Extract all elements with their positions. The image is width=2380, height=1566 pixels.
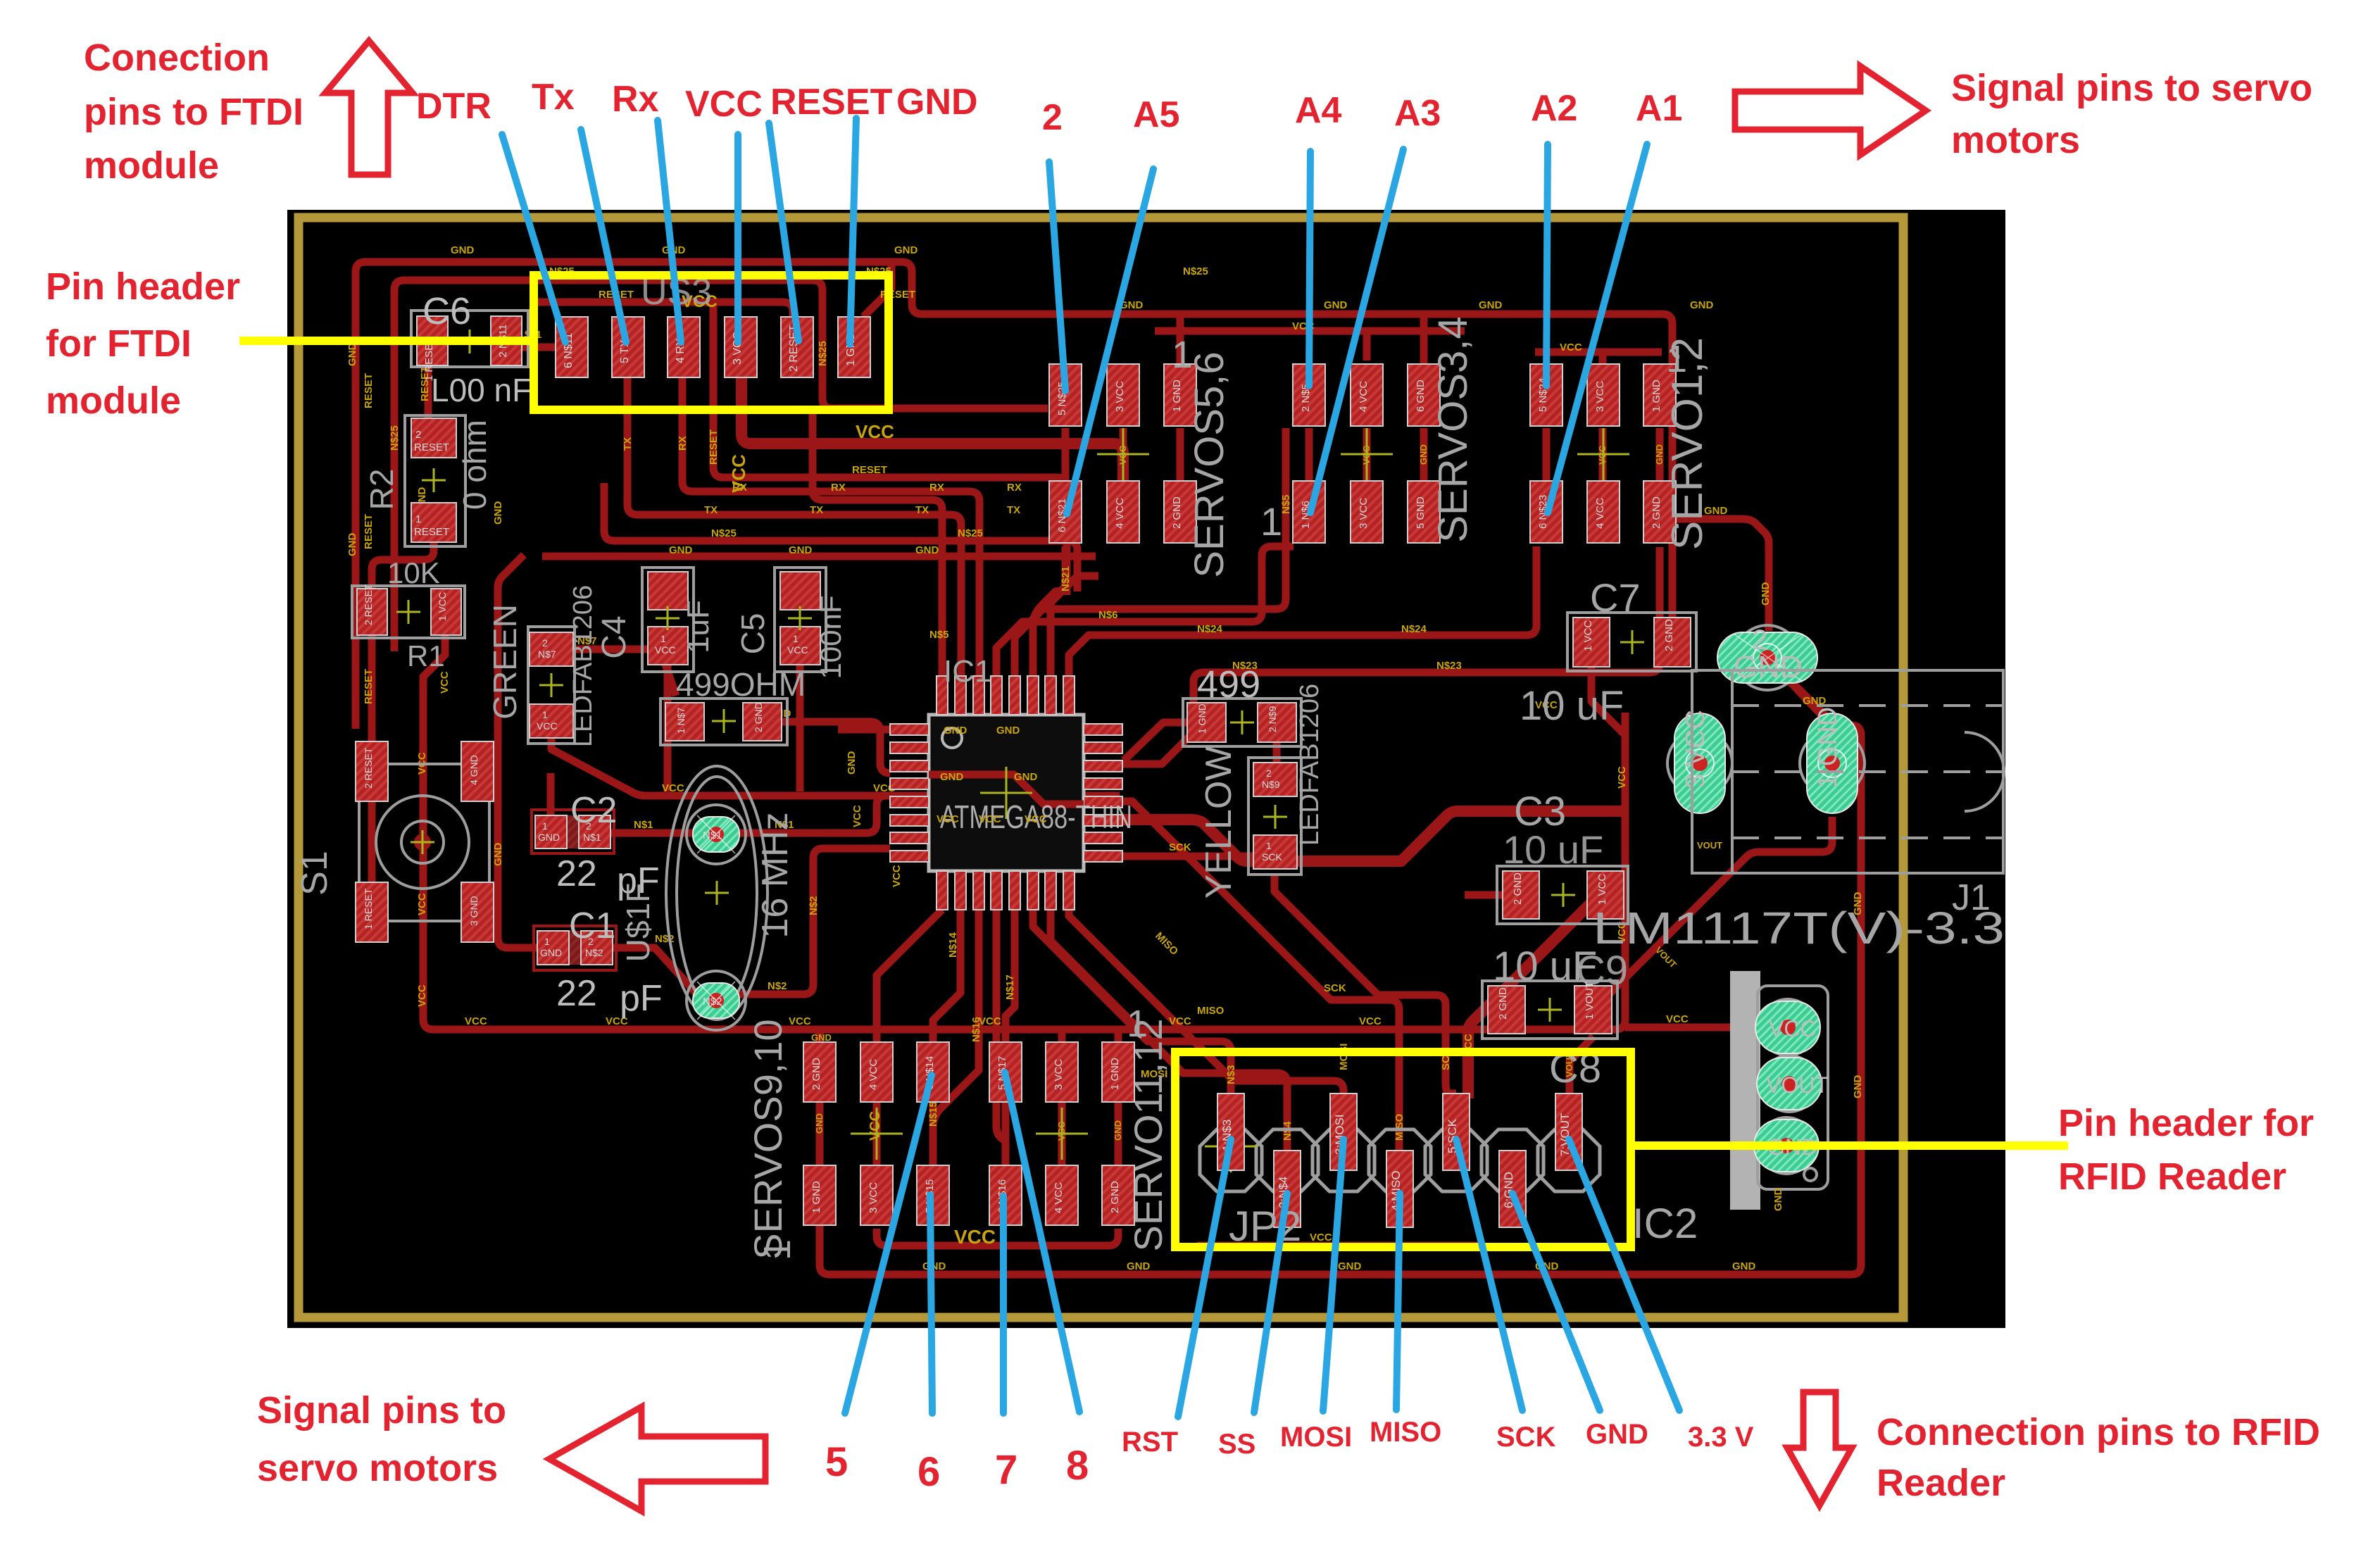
wire GND from 499OHM <box>782 722 890 773</box>
svg-text:RESET: RESET <box>414 526 449 538</box>
svg-text:TX: TX <box>704 504 718 516</box>
svg-text:2: 2 <box>542 637 548 649</box>
wire VCC IC down-left <box>877 910 942 1029</box>
svg-text:SCK: SCK <box>1262 851 1282 863</box>
svg-text:N$15: N$15 <box>927 1101 939 1127</box>
svg-text:GND: GND <box>1852 1075 1864 1099</box>
blue leader line MOSI <box>1323 1139 1344 1411</box>
svg-text:5: 5 <box>825 1439 848 1485</box>
svg-text:RX: RX <box>732 482 747 494</box>
svg-text:1 GND: 1 GND <box>1109 1058 1121 1090</box>
wire N$25 to IC pin1 <box>813 408 942 676</box>
svg-text:GND: GND <box>940 771 964 783</box>
regulator IC2 LM1117 <box>1593 903 2005 1211</box>
wire N$17 <box>1006 910 1015 1045</box>
svg-text:VCC: VCC <box>465 1015 487 1027</box>
wire SCK diagonal <box>1274 873 1456 1094</box>
svg-text:C5: C5 <box>734 613 771 655</box>
svg-text:VCC: VCC <box>789 1015 811 1027</box>
svg-text:SCK: SCK <box>1496 1422 1556 1453</box>
svg-text:SERVOS3,4: SERVOS3,4 <box>1430 316 1476 542</box>
blue leader line Rx <box>658 120 681 342</box>
wire VCC right riser <box>1591 667 1625 735</box>
svg-text:VCC: VCC <box>1310 1232 1332 1244</box>
capacitor C2 (22pF) <box>532 790 660 901</box>
wire VCC C3 stub <box>1622 891 1625 899</box>
svg-text:GND: GND <box>789 544 813 556</box>
svg-text:IC1: IC1 <box>944 654 991 689</box>
leader line yellow FTDI <box>239 337 530 345</box>
svg-text:GND: GND <box>846 751 858 775</box>
wire GND via link J1 <box>1789 679 1831 721</box>
wire N$9 stub <box>1273 741 1281 763</box>
pin header SERVOS5,6 <box>1049 334 1232 578</box>
wire N$14 <box>933 910 960 1045</box>
svg-text:7: 7 <box>995 1447 1017 1493</box>
svg-text:VCC: VCC <box>416 893 428 915</box>
svg-text:VCC: VCC <box>979 813 1001 825</box>
svg-text:4 VCC: 4 VCC <box>1358 381 1370 412</box>
svg-text:N$3: N$3 <box>1225 1065 1237 1084</box>
blue leader line A2 <box>1546 144 1548 386</box>
crystal U$1F 16MHz <box>620 766 796 1030</box>
capacitor C3 (10uF) <box>1497 789 1628 924</box>
wire VCC servo12 top <box>1535 349 1662 356</box>
svg-text:SERVOS5,6: SERVOS5,6 <box>1186 351 1232 577</box>
svg-text:GND: GND <box>1418 444 1429 465</box>
svg-text:2: 2 <box>1266 768 1272 779</box>
blue leader line A5 <box>1067 169 1153 514</box>
svg-text:1: 1 <box>542 820 548 832</box>
svg-text:N$1: N$1 <box>703 829 722 841</box>
svg-text:GREEN: GREEN <box>487 604 523 720</box>
svg-text:VCC: VCC <box>856 421 894 442</box>
svg-text:N$9: N$9 <box>1262 779 1280 790</box>
svg-text:1 VCC: 1 VCC <box>1596 874 1608 905</box>
svg-text:4 VCC: 4 VCC <box>1053 1182 1065 1213</box>
svg-text:6: 6 <box>917 1449 940 1495</box>
svg-text:Reader: Reader <box>1877 1462 2005 1504</box>
wire VOUT diagonal to J1 <box>1593 817 1832 1010</box>
svg-text:VCC: VCC <box>1560 342 1582 353</box>
svg-text:A3: A3 <box>1394 93 1441 134</box>
svg-text:N$1: N$1 <box>583 832 601 843</box>
wire VCC C5 drop <box>796 665 804 791</box>
blue leader line RESET <box>769 123 798 341</box>
svg-text:VCC: VCC <box>1769 1016 1817 1041</box>
blue leader line A1 <box>1548 144 1647 513</box>
via pad GND (J1 pin2) <box>1717 625 1817 690</box>
highlight box RFID header <box>1175 1052 1631 1247</box>
wire GND from C2 <box>547 773 555 815</box>
LED GREEN <box>487 585 598 747</box>
svg-text:TX: TX <box>915 504 929 516</box>
svg-text:N$2: N$2 <box>808 896 820 915</box>
svg-text:3 VCC: 3 VCC <box>1681 710 1710 789</box>
svg-text:N$25: N$25 <box>817 341 829 366</box>
blue leader line VCC <box>734 134 741 342</box>
svg-text:2 GND: 2 GND <box>1109 1181 1121 1213</box>
svg-text:TX: TX <box>1007 504 1020 516</box>
svg-text:RESET: RESET <box>414 441 449 453</box>
blue leader line DTR <box>502 134 565 342</box>
svg-text:GND: GND <box>1113 1120 1123 1141</box>
wire N$25 left loop <box>394 280 1048 651</box>
svg-text:GND: GND <box>1734 650 1803 684</box>
svg-text:RESET: RESET <box>708 430 720 465</box>
svg-text:2: 2 <box>415 429 421 441</box>
capacitor C5 <box>734 568 847 679</box>
svg-text:10 uF: 10 uF <box>1503 827 1603 872</box>
svg-text:N$17: N$17 <box>1004 975 1016 1000</box>
svg-text:1 GND: 1 GND <box>1813 707 1843 789</box>
svg-text:GND: GND <box>451 244 475 256</box>
pin header US3 <box>556 272 870 377</box>
svg-text:4 VCC: 4 VCC <box>868 1059 879 1090</box>
svg-text:L00 nF: L00 nF <box>431 372 532 408</box>
wire servo1112 row links <box>1006 1101 1118 1165</box>
wire VCC under JP2 <box>1197 1242 1479 1250</box>
wire VCC diag to JP2 <box>1468 901 1593 1098</box>
wire VCC C4 drop <box>664 665 672 791</box>
svg-text:VCC: VCC <box>954 1226 996 1248</box>
wire VOUT riser <box>1570 1036 1593 1096</box>
svg-text:VCC: VCC <box>868 1111 883 1141</box>
svg-text:MISO: MISO <box>1370 1417 1441 1448</box>
svg-text:4 VCC: 4 VCC <box>1594 498 1606 529</box>
svg-text:499OHM: 499OHM <box>676 666 806 703</box>
svg-text:1 GND: 1 GND <box>810 1181 822 1213</box>
blue leader line A3 <box>1310 149 1403 513</box>
wire N$5 bundle <box>1015 428 1286 676</box>
blue leader line 2 <box>1049 162 1065 391</box>
svg-text:8: 8 <box>1066 1443 1089 1489</box>
svg-text:C2: C2 <box>570 790 617 831</box>
wire VCC servo top row <box>1155 327 1465 335</box>
svg-text:3 VCC: 3 VCC <box>1358 498 1370 529</box>
svg-text:N$2: N$2 <box>703 996 722 1008</box>
svg-text:Tx: Tx <box>532 77 575 118</box>
wire servo34 GND stub <box>1420 314 1428 366</box>
label Signal pins to servo motors (bottom left) <box>257 1389 506 1489</box>
wire GND top loop <box>356 262 1672 729</box>
svg-text:pins to FTDI: pins to FTDI <box>84 91 303 133</box>
svg-text:DTR: DTR <box>416 86 491 127</box>
svg-text:MOSI: MOSI <box>1280 1422 1352 1453</box>
svg-text:4 VCC: 4 VCC <box>1114 498 1126 529</box>
arrow right servo <box>1735 66 1926 155</box>
label Pin header for FTDI module <box>46 265 240 422</box>
blue leader line RST <box>1178 1139 1231 1417</box>
blue leader line GND2 <box>1512 1194 1600 1410</box>
svg-text:GND: GND <box>996 725 1020 737</box>
svg-text:SS: SS <box>1218 1429 1255 1460</box>
wire N$24 bundle <box>1069 546 1536 676</box>
blue leader line SS <box>1254 1194 1287 1412</box>
svg-text:2: 2 <box>588 936 594 947</box>
svg-text:R1: R1 <box>407 639 445 672</box>
wire VCC under green LED <box>551 739 1120 796</box>
svg-text:MISO: MISO <box>1197 1005 1225 1017</box>
svg-text:1: 1 <box>1260 499 1282 544</box>
svg-text:RST: RST <box>1122 1427 1178 1458</box>
svg-text:3 VCC: 3 VCC <box>1594 381 1606 412</box>
svg-text:2 GND: 2 GND <box>1512 872 1524 905</box>
svg-text:pF: pF <box>620 978 663 1019</box>
svg-text:LEDFAB1206: LEDFAB1206 <box>1295 684 1324 846</box>
wire servo910 top stubs <box>820 1029 877 1045</box>
svg-text:RX: RX <box>677 436 689 451</box>
capacitor C1 (22pF) <box>534 906 663 1019</box>
svg-text:GND: GND <box>811 1032 832 1043</box>
svg-text:2 GND: 2 GND <box>1497 987 1509 1020</box>
wire GND lower run <box>542 553 1096 560</box>
wire N$25 lower run <box>604 483 1077 591</box>
svg-text:N$25: N$25 <box>389 425 401 451</box>
wire servo56 row links <box>1065 428 1180 481</box>
svg-text:GND: GND <box>1586 1419 1648 1450</box>
svg-text:499: 499 <box>1197 663 1260 706</box>
wire servo34 row links <box>1309 428 1424 481</box>
svg-text:2 GND: 2 GND <box>753 702 764 732</box>
svg-text:VCC: VCC <box>537 720 558 732</box>
svg-text:GND: GND <box>1772 1188 1784 1212</box>
svg-text:VOUT: VOUT <box>1766 1072 1829 1098</box>
svg-text:RESET: RESET <box>363 373 375 408</box>
svg-text:GND: GND <box>1479 299 1503 311</box>
svg-text:RESET: RESET <box>363 514 375 549</box>
svg-text:GND: GND <box>1690 299 1714 311</box>
wire servo12 row links <box>1546 428 1660 481</box>
wire GND green LED feed <box>569 649 676 696</box>
svg-text:GND: GND <box>944 725 967 737</box>
leader line yellow RFID <box>1634 1141 2068 1150</box>
svg-text:2 RESET: 2 RESET <box>363 584 374 625</box>
connector J1 outline <box>1692 670 2004 918</box>
svg-text:1: 1 <box>756 1239 798 1260</box>
svg-text:N$1: N$1 <box>634 819 653 831</box>
capacitor C6 <box>411 290 532 408</box>
blue leader line SCK <box>1456 1139 1522 1410</box>
resistor 499OHM <box>660 666 806 745</box>
capacitor C7 (10uF) <box>1520 575 1696 729</box>
pin header SERVOS9,10 <box>746 1019 949 1260</box>
svg-text:VCC: VCC <box>439 671 451 694</box>
svg-text:16 MHz: 16 MHz <box>755 812 796 938</box>
svg-text:S1: S1 <box>294 851 335 896</box>
blue leader line 3.3V <box>1569 1139 1679 1410</box>
svg-text:GND: GND <box>1324 299 1348 311</box>
svg-text:1 GND: 1 GND <box>1171 380 1183 412</box>
wire RX from US3 <box>682 377 979 676</box>
wire GND IC left <box>838 726 890 734</box>
wire R2 to R1 RESET <box>372 542 434 589</box>
svg-text:motors: motors <box>1951 119 2080 161</box>
wire servo910 row links <box>820 1101 933 1165</box>
svg-text:SERVO11,12: SERVO11,12 <box>1126 1018 1170 1251</box>
svg-text:Signal pins to servo: Signal pins to servo <box>1951 67 2312 109</box>
svg-text:1 GND: 1 GND <box>1196 703 1208 734</box>
svg-text:VCC: VCC <box>1169 1015 1191 1027</box>
svg-text:U$1F: U$1F <box>620 883 656 962</box>
svg-text:VCC: VCC <box>787 644 808 656</box>
svg-text:SERVOS9,10: SERVOS9,10 <box>746 1019 790 1259</box>
wire GND S1 column <box>498 555 524 917</box>
wire TX from US3 <box>627 377 961 676</box>
label Connection pins to RFID Reader <box>1877 1411 2320 1504</box>
wire VCC servo12 stub <box>1599 352 1607 366</box>
svg-text:GND: GND <box>669 544 693 556</box>
wire RESET S1 column <box>368 635 376 901</box>
resistor R2 (0 ohm) <box>363 415 493 546</box>
wire GND servo12 to via <box>1676 519 1769 631</box>
svg-text:GND: GND <box>538 832 560 843</box>
svg-text:GND: GND <box>540 947 562 958</box>
blue leader line Tx <box>581 130 626 342</box>
svg-text:2 GND: 2 GND <box>1171 496 1183 529</box>
arrow left servo <box>549 1407 765 1511</box>
switch S1 <box>294 741 494 942</box>
pin header SERVOS3,4 <box>1260 316 1476 544</box>
blue leader line A4 <box>1309 151 1310 386</box>
svg-text:1: 1 <box>1266 840 1272 851</box>
svg-text:RX: RX <box>831 482 846 494</box>
svg-text:1: 1 <box>542 709 548 720</box>
svg-text:RESET: RESET <box>852 464 887 476</box>
wire N$15 <box>933 910 979 1165</box>
svg-text:TX: TX <box>622 437 634 451</box>
resistor R1 (10K) <box>352 556 465 672</box>
wire N$1 crystal <box>610 796 890 833</box>
svg-text:Pin header: Pin header <box>46 265 240 308</box>
svg-text:VCC: VCC <box>685 84 763 125</box>
svg-text:GND: GND <box>1760 582 1772 606</box>
svg-text:1 GND: 1 GND <box>1651 380 1662 412</box>
svg-text:RX: RX <box>1007 482 1022 494</box>
svg-text:Signal pins to: Signal pins to <box>257 1389 506 1432</box>
wire VCC servo34 stub <box>1363 331 1371 361</box>
svg-text:servo motors: servo motors <box>257 1447 498 1489</box>
svg-text:LEDFAB1206: LEDFAB1206 <box>568 585 598 747</box>
svg-text:C7: C7 <box>1590 575 1641 620</box>
LED YELLOW <box>1198 684 1324 899</box>
svg-text:Conection: Conection <box>84 37 270 79</box>
svg-text:N$25: N$25 <box>1183 265 1208 277</box>
svg-text:VOUT: VOUT <box>1697 840 1722 851</box>
wire RESET header row <box>533 302 793 320</box>
svg-text:2: 2 <box>586 820 591 832</box>
svg-text:A4: A4 <box>1295 90 1342 131</box>
wire N$16 <box>996 910 1006 1165</box>
wire N$11 stub <box>522 344 556 351</box>
svg-text:3.3 V: 3.3 V <box>1688 1422 1754 1453</box>
wire SCK to LED <box>1122 853 1255 860</box>
svg-text:RESET: RESET <box>363 669 375 704</box>
svg-text:1 VOUT: 1 VOUT <box>1584 982 1596 1020</box>
svg-text:2 N$9: 2 N$9 <box>1267 706 1278 732</box>
svg-text:VCC: VCC <box>851 805 863 827</box>
svg-text:5 GND: 5 GND <box>1415 496 1427 529</box>
svg-text:N$24: N$24 <box>1401 623 1427 635</box>
blue leader line 5 <box>845 1075 932 1413</box>
svg-text:VCC: VCC <box>1359 1015 1382 1027</box>
svg-text:MISO: MISO <box>1393 1113 1405 1141</box>
arrow down RFID <box>1787 1392 1852 1505</box>
svg-text:GND: GND <box>1732 1260 1756 1272</box>
svg-text:module: module <box>46 380 181 422</box>
svg-text:SERVO1,2: SERVO1,2 <box>1663 337 1712 550</box>
wire GND from US3 pad6 <box>863 265 891 317</box>
svg-text:Pin header for: Pin header for <box>2058 1102 2314 1144</box>
wire VCC servo bottom link <box>877 1229 1118 1246</box>
svg-text:VCC: VCC <box>1025 813 1047 825</box>
capacitor C9/C8 (10uF) <box>1482 944 1628 1091</box>
svg-text:100nF: 100nF <box>814 595 847 679</box>
svg-text:VCC: VCC <box>1616 766 1628 789</box>
wire N$3 <box>1033 910 1231 1097</box>
highlight box FTDI header <box>534 275 889 410</box>
label Pin header for RFID Reader <box>2058 1102 2314 1198</box>
svg-text:2 RESET: 2 RESET <box>363 747 374 789</box>
via pad GND2 (J1 pin1) <box>1800 707 1865 813</box>
svg-text:2 GND: 2 GND <box>1663 619 1675 651</box>
blue leader line 6 <box>930 1195 932 1413</box>
svg-text:1: 1 <box>544 936 550 947</box>
svg-text:N$6: N$6 <box>1098 609 1118 621</box>
svg-text:GND: GND <box>1338 1260 1362 1272</box>
svg-text:N$7: N$7 <box>538 649 556 660</box>
svg-text:N$25: N$25 <box>711 527 737 539</box>
svg-text:GND: GND <box>896 82 978 123</box>
svg-text:TX: TX <box>810 504 823 516</box>
blue leader line MISO <box>1396 1194 1400 1410</box>
svg-text:GND: GND <box>346 533 358 557</box>
board substrate <box>287 210 2005 1328</box>
svg-text:Connection pins to RFID: Connection pins to RFID <box>1877 1411 2320 1453</box>
svg-text:1 VCC: 1 VCC <box>437 592 448 621</box>
svg-text:3 VCC: 3 VCC <box>1114 381 1126 412</box>
svg-text:GND: GND <box>915 544 939 556</box>
label Conection pins to FTDI module <box>84 37 303 187</box>
svg-text:Rx: Rx <box>612 79 659 120</box>
svg-text:3 VCC: 3 VCC <box>868 1182 879 1213</box>
wire VCC from US3 <box>741 377 1123 481</box>
svg-text:N$2: N$2 <box>585 947 603 958</box>
wire VCC LM1117 <box>1625 1024 1760 1032</box>
svg-text:2 GND: 2 GND <box>1651 496 1662 529</box>
wire GND LED 499 <box>1124 722 1187 760</box>
svg-text:22: 22 <box>556 853 597 894</box>
svg-text:VCC: VCC <box>1666 1013 1689 1025</box>
svg-text:GND: GND <box>814 1113 825 1134</box>
svg-text:C6: C6 <box>422 290 471 332</box>
arrow up FTDI <box>325 41 413 175</box>
svg-text:10K: 10K <box>387 556 440 589</box>
wire C6 to R2 RESET <box>425 365 432 418</box>
svg-text:N$25: N$25 <box>958 527 983 539</box>
svg-text:MOSI: MOSI <box>1338 1044 1350 1070</box>
svg-text:GND: GND <box>346 343 358 367</box>
blue leader line GND <box>850 118 856 344</box>
svg-text:VCC: VCC <box>655 644 676 656</box>
svg-text:VCC: VCC <box>662 782 684 794</box>
svg-text:N$24: N$24 <box>1197 623 1223 635</box>
svg-text:A5: A5 <box>1133 94 1179 135</box>
svg-text:1: 1 <box>660 633 666 644</box>
svg-text:SCK: SCK <box>1324 982 1346 994</box>
wire GND right loop to bottom <box>820 681 1861 1274</box>
wire N$6 bundle <box>996 546 1294 676</box>
